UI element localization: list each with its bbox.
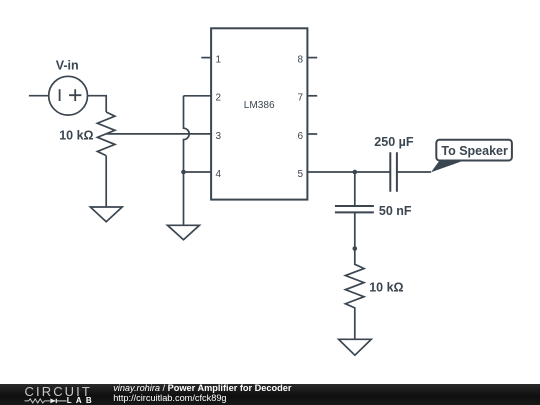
pin 7 stub <box>307 95 317 97</box>
svg-text:250 µF: 250 µF <box>374 135 414 149</box>
pin 8 stub <box>307 57 317 59</box>
net flag To Speaker (tail) <box>431 161 464 173</box>
CircuitLab wordmark CIRCUIT <box>25 385 92 398</box>
wire (C1 to flag) <box>397 171 431 173</box>
pin 6 stub <box>307 133 317 135</box>
potentiometer R1 10 kΩ <box>97 112 115 156</box>
wire (junction down to C2) <box>354 172 356 206</box>
wire (pin 4 to ground rail) <box>184 171 212 173</box>
svg-text:10 kΩ: 10 kΩ <box>59 128 93 142</box>
wire (left stub of V1) <box>29 95 49 97</box>
capacitor C2 50 nF <box>335 206 374 212</box>
svg-text:6: 6 <box>297 131 303 142</box>
svg-text:To Speaker: To Speaker <box>441 144 508 158</box>
IC U1 LM386 <box>211 28 307 199</box>
svg-text:3: 3 <box>216 131 222 142</box>
svg-text:50 nF: 50 nF <box>379 204 412 218</box>
ground (below R2) <box>339 339 372 355</box>
pin 1 stub <box>201 57 211 59</box>
svg-text:5: 5 <box>297 169 303 180</box>
ground (below R1) <box>90 207 122 222</box>
wire (R1 wiper to pin 3, straight under hop) <box>107 133 212 135</box>
wire (V1 to potentiometer top) <box>88 96 107 112</box>
svg-text:V-in: V-in <box>56 59 79 73</box>
ground (below ground rail) <box>168 225 200 239</box>
resistor R2 10 kΩ <box>345 249 364 340</box>
wire (pin 2 to ground rail) <box>184 95 212 97</box>
junction (pin 4 / ground rail) <box>181 170 186 175</box>
svg-text:2: 2 <box>216 93 222 104</box>
wire (pin 5 to C1) <box>307 171 390 173</box>
svg-text:LM386: LM386 <box>244 100 275 111</box>
CircuitLab wordmark LAB <box>67 397 96 405</box>
junction (pin 5 wire / C2 branch) <box>353 170 358 175</box>
capacitor C1 250 µF <box>390 152 397 191</box>
CircuitLab logo squiggle (resistor + diode) <box>24 398 68 404</box>
voltage source V1 <box>49 76 88 115</box>
net flag To Speaker (box) <box>436 140 512 161</box>
svg-text:1: 1 <box>216 54 222 65</box>
svg-text:10 kΩ: 10 kΩ <box>369 281 403 295</box>
wire (R1 bottom to ground) <box>105 156 107 207</box>
footer credit text <box>113 384 291 403</box>
junction (C2 / R2) <box>353 246 358 251</box>
wire (C2 to R2) <box>354 212 356 248</box>
svg-text:7: 7 <box>297 93 303 104</box>
footer bar <box>0 384 540 405</box>
svg-text:4: 4 <box>216 169 222 180</box>
svg-text:8: 8 <box>297 54 303 65</box>
wire (vertical ground rail with hop over pin-3 wire) <box>184 96 190 226</box>
